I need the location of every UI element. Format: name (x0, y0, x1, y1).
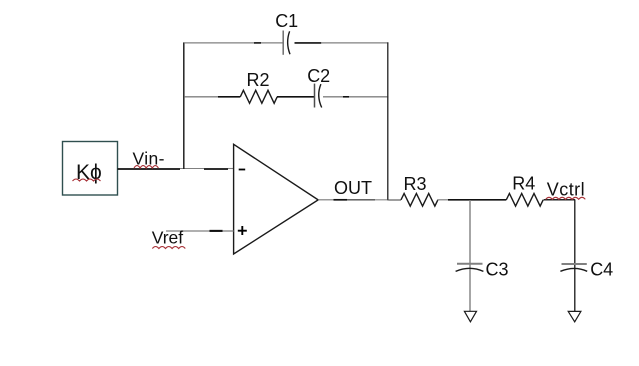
spellcheck squiggle under Kφ (73, 179, 101, 181)
wire: op-amp output OUT run to R3 (318, 199, 401, 201)
svg-text:R2: R2 (247, 70, 270, 90)
resistor R2 (240, 90, 277, 103)
spellcheck squiggle under Vref (152, 247, 185, 249)
wire: right feedback vertical (387, 42, 389, 200)
wire: C3 branch vertical (469, 200, 471, 311)
svg-text:Vctrl: Vctrl (547, 180, 585, 200)
capacitor C3 (456, 264, 484, 272)
spellcheck squiggle under Vin (134, 166, 158, 169)
capacitor C4 (560, 264, 587, 271)
op-amp non-inverting input marker (+) (238, 226, 247, 235)
wire: R2-C2 feedback run (184, 96, 388, 98)
wire: R4 to Vctrl node (544, 199, 576, 201)
op-amp inverting input marker (-) (239, 169, 246, 171)
svg-text:C2: C2 (307, 66, 330, 86)
resistor R4 (506, 194, 543, 207)
svg-text:OUT: OUT (334, 178, 372, 198)
wire: left feedback vertical (183, 42, 185, 169)
wire: Kφ output to op-amp inverting input (118, 168, 234, 171)
ground at C3 (464, 311, 476, 322)
phase detector box Kφ (63, 142, 118, 196)
capacitor C1 (283, 31, 290, 55)
svg-text:C3: C3 (486, 259, 509, 279)
svg-text:R3: R3 (404, 174, 427, 194)
ground at C4 (568, 311, 581, 321)
svg-text:R4: R4 (512, 174, 535, 194)
wire: C4 branch vertical (574, 200, 576, 311)
capacitor C2 (315, 84, 322, 108)
spellcheck squiggle under Vctrl (546, 197, 586, 199)
op-amp U1 (234, 144, 319, 254)
svg-text:Vref: Vref (152, 228, 184, 248)
wire: C1 feedback top run (184, 42, 388, 44)
wire: Vref to op-amp non-inverting input (166, 230, 234, 232)
resistor R3 (401, 194, 438, 207)
wire: R3 to R4 with C3 junction node (438, 199, 507, 201)
svg-text:C4: C4 (590, 259, 613, 279)
svg-text:C1: C1 (275, 11, 298, 31)
